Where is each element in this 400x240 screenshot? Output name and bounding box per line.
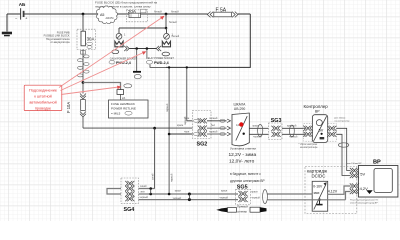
svg-text:2A: 2A (122, 96, 125, 100)
wires from relay distribution rail down (150, 65, 250, 194)
svg-text:другими штекерами BP: другими штекерами BP (230, 179, 265, 183)
wire: vertical rail to SG2 pin 1 (187, 67, 193, 120)
SG4 left loop (107, 189, 121, 195)
SG5 (236, 185, 251, 205)
svg-text:черн: черн (184, 131, 190, 134)
relay socket right (lamp) (156, 33, 170, 56)
svg-text:красн: красн (251, 190, 258, 193)
svg-text:Контроллер: Контроллер (304, 104, 329, 109)
svg-text:черный: черный (209, 117, 218, 120)
node: branch to SG4 (153, 127, 156, 130)
svg-text:черный: черный (184, 116, 187, 125)
svg-text:синий: синий (140, 185, 147, 188)
svg-text:АККУМ.: АККУМ. (106, 17, 115, 20)
svg-text:белый: белый (171, 10, 179, 14)
svg-text:АБ: АБ (19, 2, 26, 7)
svg-text:черный: черный (220, 196, 229, 199)
node: tie upper (149, 187, 152, 190)
wire: SG4 row4 to SG5 (139, 199, 239, 201)
svg-text:5V: 5V (360, 172, 365, 177)
wire: ground drop (6, 14, 8, 32)
wire: relay feed drop (119, 14, 167, 33)
meter to SG3 wires (249, 128, 268, 134)
wire: stub to left socket pin 1 (118, 28, 120, 33)
node: junction at relay branch (165, 13, 168, 16)
wire: tie row2-row3 (150, 189, 152, 195)
node: rail joins SG4 row3 (168, 193, 171, 196)
red arrow line to relay wire node (61, 53, 144, 91)
svg-text:POWER RETLINE: POWER RETLINE (111, 107, 136, 111)
svg-text:5V: 5V (319, 129, 324, 133)
wire: black up to BP 4,2V minus (346, 192, 351, 200)
svg-text:к штатной: к штатной (34, 94, 52, 98)
svg-text:Установка отметки: Установка отметки (230, 146, 256, 150)
red annotation box (24, 85, 62, 110)
svg-text:Регулируемый диапазон 5V: Регулируемый диапазон 5V (350, 199, 379, 202)
SG3 to controller (282, 128, 305, 134)
red arrowheads (117, 16, 165, 89)
wire: SG2 pin3 to meter (207, 133, 227, 135)
svg-text:белый: белый (154, 10, 162, 14)
wire: horizontal to left socket (119, 27, 166, 29)
wire: main +12V bus from battery to F5A (7, 13, 21, 15)
node: splice branch junction (135, 47, 138, 50)
BP box (350, 159, 398, 197)
svg-text:Прямой: Прямой (237, 205, 248, 209)
svg-text:FUSE LEIMBACK: FUSE LEIMBACK (111, 102, 135, 106)
svg-text:черный: черный (251, 196, 260, 199)
controller to BP wires (336, 128, 350, 175)
wire: rail to SG2 pin3 (169, 133, 192, 135)
svg-text:Подсоединение: Подсоединение (29, 88, 57, 92)
svg-text:черный: черный (253, 136, 262, 139)
svg-text:SG4: SG4 (124, 207, 135, 213)
DC/DC cartridge (305, 167, 357, 214)
svg-text:RELAY POWER SOCKET: RELAY POWER SOCKET (146, 57, 174, 60)
svg-text:проводке: проводке (35, 106, 51, 110)
svg-text:черный: черный (166, 103, 169, 112)
battery symbol (21, 8, 24, 19)
fuse F5A (207, 7, 238, 17)
node: relay feed tee (165, 27, 168, 30)
ferrite ellipse 4 (263, 190, 268, 204)
fuse 20A dashed (127, 9, 148, 22)
wire: SG4 row2 stub (139, 188, 155, 190)
svg-text:обеспечивающий заряд BP: обеспечивающий заряд BP (350, 201, 378, 204)
ferrite ellipse 1 (258, 125, 263, 137)
svg-text:0-16V: 0-16V (313, 185, 323, 189)
FUSE LEIMBACK box (109, 100, 149, 118)
SG4 (121, 178, 139, 213)
svg-text:CALM POWER SOCKET: CALM POWER SOCKET (110, 57, 137, 60)
svg-text:SG5: SG5 (237, 185, 248, 191)
svg-text:черный: черный (171, 173, 174, 182)
wire: between relay sockets (129, 48, 156, 50)
controller (303, 104, 336, 143)
wire: from F5A down and left to relay distribution rail (166, 14, 250, 67)
voltmeter (220, 102, 250, 145)
svg-text:12,0V- лето: 12,0V- лето (229, 159, 255, 165)
svg-text:от аккумулятора: от аккумулятора (50, 41, 70, 44)
fuse holder of return line (117, 90, 124, 95)
svg-text:4,2V: 4,2V (360, 186, 369, 191)
svg-text:F 10A: F 10A (66, 102, 71, 113)
wire: SG5 red to DCDC input (267, 193, 312, 195)
svg-text:красн: красн (177, 124, 184, 127)
svg-text:UB-290: UB-290 (234, 107, 246, 111)
svg-text:красн: красн (175, 190, 182, 193)
svg-text:= MIL5: = MIL5 (111, 111, 121, 115)
svg-text:4,1: 4,1 (236, 123, 240, 127)
svg-text:синий: синий (151, 173, 154, 180)
SG3 (269, 118, 283, 139)
svg-text:PWD-2,4: PWD-2,4 (154, 61, 169, 65)
wire: controller minus to BP 5V (336, 134, 350, 175)
svg-text:белый: белый (169, 20, 177, 24)
node: tie2 upper (188, 193, 191, 196)
wire: vertical from bus node down (165, 14, 167, 28)
svg-text:черный: черный (209, 131, 218, 134)
wires SG2 to meter (169, 121, 226, 134)
wire: SG4 row3 to SG5 (139, 193, 239, 195)
wire: SG2 pin2 to meter (207, 127, 227, 129)
cloud A5 (96, 6, 117, 24)
F10A fuse (66, 83, 86, 129)
node: tie lower (149, 193, 152, 196)
node: tie2 lower (188, 198, 191, 201)
wire: vertical from F10A branch node to SG4 row2 (154, 128, 156, 188)
red arrow line to bus node (59, 18, 162, 88)
wire label oval белый at return corner (124, 84, 132, 88)
svg-text:ШКАЛА: ШКАЛА (234, 102, 247, 106)
svg-text:красн: красн (221, 190, 228, 193)
wire: into FUSE LEIMBACK box (120, 94, 122, 100)
wire: down to 30A fuse (82, 14, 84, 31)
node: rail tee A (168, 66, 170, 68)
svg-text:30A: 30A (87, 37, 95, 42)
svg-text:SG2: SG2 (197, 142, 208, 148)
wire: SG2 pin1 to meter (207, 120, 227, 122)
node: PWD-2,4 leader junction (146, 47, 149, 50)
svg-text:4,12V: 4,12V (328, 189, 338, 193)
node: rail to SG2 pin3 junction (168, 133, 171, 136)
wire: SG5 black through DCDC (267, 199, 345, 201)
svg-text:мин 150мм: мин 150мм (334, 118, 346, 120)
plugs bottom (216, 205, 266, 214)
svg-text:12,2V - зима: 12,2V - зима (229, 152, 257, 158)
ferrite ellipse 2 (290, 125, 295, 137)
svg-text:DC\DC: DC\DC (312, 174, 326, 179)
SG2 (193, 111, 212, 148)
30A fuse block (77, 29, 96, 49)
wire: distribution rail y=67 (150, 65, 250, 68)
relay socket left (lamp) (112, 33, 129, 53)
wire: DCDC output to BP 4,2V (328, 186, 351, 194)
wire: stub to right socket pin 1 (166, 28, 168, 33)
svg-text:BP: BP (315, 109, 320, 113)
node: junction at 30A branch (82, 13, 85, 16)
svg-text:бел: бел (211, 124, 216, 127)
red arrow lines to stock-wiring points (59, 18, 162, 95)
svg-text:на контроллере: на контроллере (300, 146, 318, 149)
svg-text:жел: жел (141, 190, 146, 193)
ferrite ellipse 3 (horizontal) (338, 143, 348, 147)
red arrow line to return-line corner (61, 87, 119, 95)
svg-text:черный: черный (140, 196, 149, 199)
svg-text:автомобильной: автомобильной (29, 100, 56, 104)
svg-text:штекер: штекер (237, 209, 247, 213)
svg-text:BP: BP (373, 159, 381, 165)
splice ovals below 30A (78, 50, 90, 83)
node: rail tee B (186, 66, 188, 68)
svg-text:A5: A5 (100, 13, 104, 17)
node junction at 83,82.5 (82, 81, 85, 84)
wire: tie row3-row4 (188, 194, 190, 200)
svg-text:мин 150мм BP: мин 150мм BP (347, 163, 362, 165)
wire to leimback fuse (83, 83, 121, 90)
svg-text:на контроллер: на контроллер (335, 120, 351, 122)
splice from left relay junction (133, 49, 141, 79)
wire: vertical rail to SG4 row (168, 67, 170, 194)
wire: F10A to SG2 pin 2 (83, 127, 193, 129)
wire: F5A to right corner (238, 13, 250, 15)
wire: controller plus to BP 5V (336, 128, 350, 170)
svg-text:в бардачке, вместе с: в бардачке, вместе с (230, 172, 261, 176)
bottom wires SG4 to SG5 (139, 189, 239, 200)
DCDC wires (267, 186, 350, 200)
ground (2, 33, 12, 36)
svg-text:мах: мах (314, 191, 320, 195)
